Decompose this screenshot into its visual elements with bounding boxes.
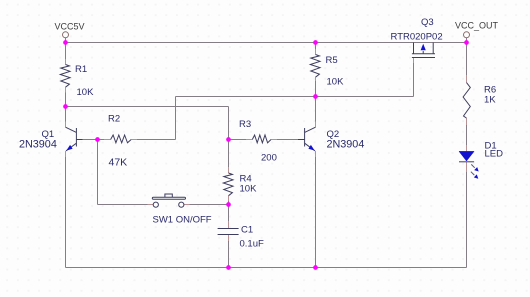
svg-text:0.1uF: 0.1uF [240, 239, 264, 250]
svg-text:R5: R5 [326, 55, 338, 66]
transistor Q2 emitter arrow [308, 145, 314, 151]
wire Q3 gate drop [413, 63, 415, 97]
pin R6 leads [466, 75, 468, 125]
svg-text:SW1 ON/OFF: SW1 ON/OFF [153, 215, 212, 226]
junction Q2 emitter rail [313, 265, 318, 270]
svg-text:VCC_OUT: VCC_OUT [455, 21, 499, 31]
diode D1 LED [459, 151, 479, 178]
junction SW1 right / R4-C1 [226, 202, 231, 207]
wire top VCC rail [66, 42, 467, 44]
pin SW1 leads [148, 204, 190, 206]
switch SW1 [152, 194, 185, 207]
wire R5 top [315, 43, 317, 50]
resistor R4 [223, 173, 233, 196]
pin Q2 emitter lead [315, 151, 317, 157]
wire gate net horizontal [176, 96, 414, 98]
wire R3 left [229, 139, 247, 141]
wire bottom rail [66, 267, 467, 269]
wire collector net drop to R3/R4 [228, 107, 230, 140]
wire C1 bottom [228, 241, 230, 268]
wire R6 bottom to LED [466, 125, 468, 145]
transistor Q1 [66, 127, 83, 151]
wire LED cathode down [466, 172, 468, 268]
wire Q2 collector [315, 97, 317, 122]
resistor R5 [310, 55, 320, 78]
resistor R2 [111, 135, 132, 143]
pin Q1 collector lead [65, 122, 67, 128]
wire VCC_OUT stub [466, 38, 468, 43]
junction Q1 base / SW1 branch [95, 137, 100, 142]
junction R5 top [313, 40, 318, 45]
pin Q3 gate lead [413, 58, 415, 64]
wire R5 bottom [315, 81, 317, 97]
junction R1 bottom / Q1 collector [63, 104, 68, 109]
resistor R3 [252, 135, 271, 143]
pin Q1 emitter lead [65, 151, 67, 157]
wire Q1 base to R2 [83, 139, 105, 141]
mosfet Q3 body arrow [421, 44, 426, 51]
junction R3 / R4 node [226, 137, 231, 142]
svg-text:10K: 10K [77, 87, 95, 98]
pin R3 leads [246, 139, 277, 141]
resistor R1 [60, 65, 70, 88]
svg-text:2N3904: 2N3904 [327, 139, 365, 151]
wire C1 top [228, 205, 230, 222]
capacitor C1 [218, 229, 239, 235]
wire Q2 emitter down [315, 157, 317, 268]
svg-text:47K: 47K [109, 157, 128, 169]
wire R4 bottom [228, 201, 230, 205]
wire R2 right to gate net [137, 139, 176, 141]
wire R1 bottom to node [65, 93, 67, 107]
junction R5 bottom / Q2 collector / gate net [313, 94, 318, 99]
svg-text:10K: 10K [240, 184, 258, 195]
wire gate net vertical left [175, 97, 177, 140]
pin C1 leads [228, 221, 230, 241]
svg-text:Q3: Q3 [421, 17, 434, 28]
resistor R6 [463, 83, 470, 119]
svg-text:VCC5V: VCC5V [55, 22, 85, 32]
wire Q1 collector [65, 107, 67, 122]
wire collector net horizontal [66, 106, 229, 108]
pin R4 leads [228, 167, 230, 201]
svg-text:LED: LED [485, 149, 504, 160]
junction VCC_OUT [464, 40, 469, 45]
svg-text:1K: 1K [484, 95, 496, 106]
transistor Q1 emitter arrow [66, 145, 72, 151]
transistor Q2 [298, 127, 316, 151]
svg-text:10K: 10K [327, 77, 345, 88]
wire VCC5V stub [65, 38, 67, 43]
wire R1 top [65, 43, 67, 60]
mosfet Q3 [412, 43, 435, 58]
wire Q1 emitter down [65, 157, 67, 268]
junction C1 bottom rail [226, 265, 231, 270]
pin Q2 collector lead [315, 122, 317, 128]
svg-text:RTR020P02: RTR020P02 [391, 32, 443, 43]
wire R3 right to Q2 base [277, 139, 298, 141]
wire SW1 left [98, 204, 148, 206]
svg-text:R2: R2 [108, 114, 120, 125]
svg-text:R3: R3 [239, 119, 251, 130]
pin R2 leads [104, 139, 137, 141]
svg-text:200: 200 [261, 153, 277, 164]
svg-text:R1: R1 [75, 64, 87, 75]
LED light arrows [471, 164, 479, 178]
pin D1 leads [466, 145, 468, 172]
pin R5 leads [315, 49, 317, 81]
svg-text:2N3904: 2N3904 [19, 139, 57, 151]
wire SW1 right [190, 204, 229, 206]
power terminal VCC_OUT [464, 32, 470, 38]
svg-text:C1: C1 [241, 225, 253, 236]
wire R6 top [466, 43, 468, 76]
power terminal VCC5V [63, 32, 69, 38]
pin R1 top lead [65, 59, 67, 65]
pin R1 bottom lead [65, 87, 67, 92]
wire R4 top [228, 140, 230, 168]
wire SW1 branch vertical [97, 140, 99, 205]
junction VCC5V rail [63, 40, 68, 45]
